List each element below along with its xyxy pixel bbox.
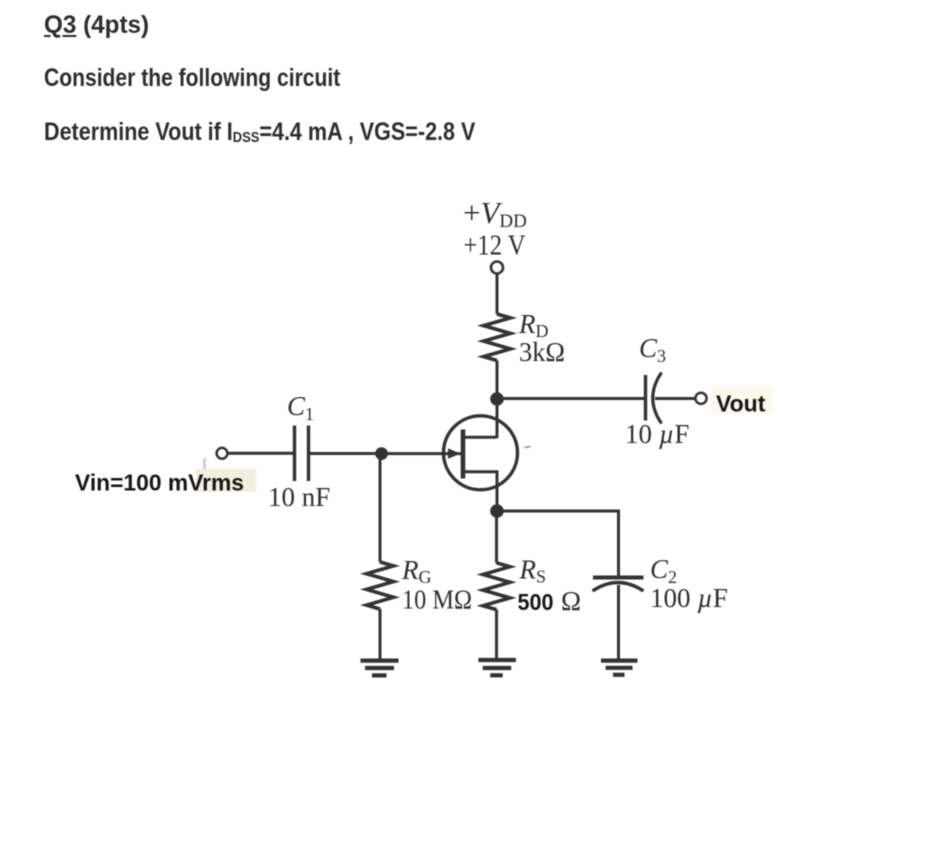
- wire source node to RS: [495, 511, 498, 563]
- capacitor C1 right plate: [307, 426, 310, 482]
- transistor Q1 gate bar: [461, 430, 466, 479]
- svg-text:C1: C1: [287, 391, 314, 424]
- label RG: [401, 555, 432, 587]
- artifact speck near transistor: [525, 447, 531, 448]
- svg-text:Vout: Vout: [716, 391, 766, 417]
- svg-text:Ω: Ω: [561, 586, 581, 616]
- label C1: [287, 391, 314, 424]
- svg-text:C3: C3: [639, 333, 666, 366]
- wire gate node to transistor gate: [382, 452, 462, 455]
- transistor Q1 source lead: [464, 472, 497, 511]
- wire RG to ground: [379, 609, 382, 659]
- label 10 nF: [268, 482, 330, 512]
- capacitor C2 bottom curved plate: [593, 583, 644, 592]
- label RS: [519, 555, 547, 587]
- node gate junction dot: [375, 447, 388, 460]
- wire C3 to Vout terminal: [655, 397, 695, 400]
- highlight behind Vin label: [196, 469, 256, 492]
- capacitor C3 left plate: [644, 375, 647, 421]
- svg-text:100 µF: 100 µF: [650, 583, 728, 613]
- transistor Q1 JFET body circle: [444, 416, 518, 490]
- label 100 µF: [650, 583, 728, 613]
- label 500 Ω: [518, 586, 582, 616]
- label C2: [650, 554, 677, 587]
- label 10 µF: [625, 419, 689, 449]
- wire C1 to gate node: [310, 452, 376, 455]
- label 3kΩ: [519, 337, 565, 367]
- prompt line: Determine Vout if Idss=4.4 mA, VGS=-2.8 V: [44, 118, 475, 147]
- ground below RG: [361, 661, 399, 676]
- label C3: [639, 333, 666, 366]
- svg-text:Vin=100 mVrms: Vin=100 mVrms: [75, 470, 244, 496]
- wire drain node to C3: [497, 397, 644, 400]
- input terminal Vin: [217, 448, 228, 459]
- wire RS to ground: [495, 610, 498, 659]
- capacitor C1 left plate: [293, 426, 296, 482]
- svg-text:+12 V: +12 V: [464, 230, 526, 262]
- resistor RD: [484, 314, 511, 361]
- svg-text:+VDD: +VDD: [463, 195, 527, 232]
- label +12 V: [464, 230, 526, 262]
- svg-text:10 MΩ: 10 MΩ: [402, 585, 472, 615]
- highlight behind Vout: [711, 386, 773, 414]
- svg-text:10 nF: 10 nF: [268, 482, 330, 512]
- wire source node to C2: [497, 511, 619, 576]
- Vout terminal: [695, 393, 706, 404]
- ground below RS: [478, 660, 516, 675]
- svg-text:3kΩ: 3kΩ: [519, 337, 565, 367]
- VDD supply terminal: [491, 262, 503, 274]
- label Vout: [716, 391, 766, 417]
- wire VDD terminal to RD: [496, 274, 499, 315]
- question heading Q3 (4pts): [44, 11, 149, 40]
- svg-text:RS: RS: [519, 555, 547, 587]
- capacitor C3 right curved plate: [653, 373, 662, 424]
- resistor RS: [483, 563, 510, 610]
- svg-text:10 µF: 10 µF: [625, 419, 689, 449]
- svg-text:500: 500: [518, 589, 554, 615]
- transistor Q1 gate arrow: [448, 448, 461, 458]
- node drain junction dot: [490, 392, 504, 406]
- transistor Q1 drain lead: [464, 436, 497, 439]
- blue tick artifact: [203, 458, 206, 469]
- wire RD to drain node: [496, 361, 499, 439]
- resistor RG: [367, 562, 394, 609]
- wire gate node to RG: [379, 454, 382, 562]
- wire C2 to ground: [617, 585, 620, 659]
- prompt line: Consider the following circuit: [44, 64, 340, 93]
- node source junction dot: [490, 504, 504, 518]
- capacitor C2 top plate: [593, 576, 644, 580]
- ground below C2: [601, 661, 638, 675]
- wire Vin terminal to C1: [228, 452, 294, 455]
- label 10 MΩ: [402, 585, 472, 615]
- label RD: [518, 309, 549, 341]
- svg-text:RG: RG: [401, 555, 432, 587]
- label +VDD: [463, 195, 527, 232]
- label Vin=100 mVrms: [75, 470, 244, 496]
